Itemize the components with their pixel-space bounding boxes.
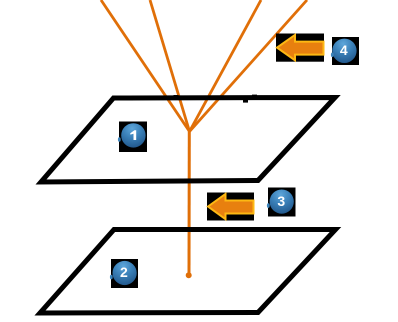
label 1 square: [119, 122, 147, 153]
label 4 square: [332, 37, 359, 65]
tick mark b on plane 1 top edge: [252, 95, 257, 98]
wire ray a: [101, 0, 190, 132]
plane 1 outline: [41, 98, 335, 183]
wire ray d: [190, 0, 308, 132]
tick mark c under plane 1 top edge: [243, 100, 248, 103]
label 3 square: [268, 188, 296, 217]
label 2 square: [111, 259, 138, 288]
arrow icon 3: [208, 194, 254, 219]
label 4 ball: [332, 39, 356, 63]
label 1 number: [130, 130, 136, 140]
tick mark a on plane 1 top edge: [174, 95, 179, 98]
label 2 ball sliver: [110, 275, 113, 280]
label 4 ball sliver: [331, 53, 334, 58]
wire ray c: [190, 0, 262, 132]
wire ray b: [150, 0, 190, 132]
arrow icon 4 background: [276, 34, 324, 62]
wire vertical drop: [188, 131, 191, 273]
label 1 ball sliver: [118, 137, 121, 142]
label 2 ball: [113, 261, 137, 285]
plane 2 outline: [40, 230, 336, 314]
label 3 ball: [270, 190, 294, 214]
node endpoint dot: [186, 272, 192, 278]
label 1 ball: [121, 123, 145, 147]
label 3 ball sliver: [267, 203, 270, 208]
svg-text:4: 4: [340, 42, 348, 58]
arrow icon 3 background: [207, 193, 254, 221]
arrow icon 4: [277, 35, 324, 60]
svg-text:2: 2: [120, 264, 128, 280]
svg-text:3: 3: [277, 193, 285, 209]
